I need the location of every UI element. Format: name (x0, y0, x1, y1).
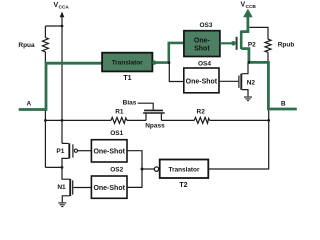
svg-text:OS1: OS1 (110, 130, 123, 137)
resistor Rpua (42, 26, 48, 63)
svg-text:N1: N1 (57, 184, 66, 191)
svg-text:N2: N2 (247, 79, 256, 86)
wire T2 output to B rail (208, 110, 268, 169)
svg-text:One-Shot: One-Shot (186, 79, 218, 86)
svg-text:Shot: Shot (194, 46, 210, 53)
translator T1 box (102, 53, 152, 72)
T2 input bubble (154, 167, 158, 171)
ground N1 (58, 203, 66, 207)
svg-text:Npass: Npass (145, 123, 165, 130)
svg-text:One-Shot: One-Shot (93, 185, 125, 192)
wire R2 to B rail (210, 119, 269, 121)
wire P1 gate to OS1 (78, 150, 92, 152)
svg-text:A: A (26, 101, 31, 108)
svg-text:Translator: Translator (169, 166, 200, 173)
wire N2 drain (242, 63, 248, 74)
svg-text:R1: R1 (115, 108, 124, 115)
wire mid rail left segment (45, 119, 111, 121)
wire Npass to R2 (161, 119, 194, 121)
wire VCCA rail down to P1 source (61, 26, 63, 143)
resistor R2 (194, 117, 209, 123)
wire branch down to OS4 input (169, 64, 184, 82)
power VCCA label (54, 2, 70, 11)
svg-text:T2: T2 (179, 182, 187, 189)
wire Bias to Npass gate (138, 103, 154, 110)
one-shot OS3 box (184, 31, 220, 57)
power VCCA arrow (60, 12, 65, 27)
resistor Rpub (250, 27, 272, 61)
svg-text:Rpub: Rpub (278, 41, 295, 48)
wire OS1 output (127, 151, 142, 169)
node P1/N1 drain junction (61, 166, 64, 169)
one-shot OS2 box (91, 176, 127, 198)
wire junction to T2 bubble (142, 168, 154, 170)
svg-text:OS2: OS2 (110, 167, 123, 174)
transistor N1 (62, 167, 73, 202)
node A green wire to T1 input (19, 63, 103, 109)
svg-text:Translator: Translator (112, 60, 143, 67)
wire P2 drain to Rpub and B rail (green) (248, 62, 297, 109)
svg-text:Rpua: Rpua (18, 42, 35, 49)
svg-text:CCB: CCB (246, 4, 257, 10)
wire R1 to Npass (127, 119, 146, 121)
power VCCB arrow (green) (243, 9, 253, 18)
transistor P2 (237, 17, 249, 62)
transistor P2 gate bubble (231, 41, 236, 46)
transistor N2 (239, 74, 248, 97)
wire OS3 output to P2 gate (green) (220, 42, 231, 44)
one-shot OS4 box (184, 68, 219, 93)
transistor Npass (143, 110, 165, 120)
ground N2 (244, 97, 252, 101)
label One-Shot OS3 (194, 38, 211, 53)
node mid-rail left junction (44, 119, 47, 122)
node OS1/OS2 output junction (141, 168, 144, 171)
node B rail junction (267, 119, 270, 122)
svg-text:One-: One- (194, 38, 211, 45)
svg-text:P1: P1 (56, 148, 64, 155)
power VCCB label (241, 1, 257, 10)
transistor P1 (62, 143, 78, 167)
svg-text:OS4: OS4 (198, 61, 211, 68)
svg-text:T1: T1 (123, 75, 131, 82)
translator T2 box (160, 160, 209, 179)
svg-text:OS3: OS3 (199, 22, 212, 29)
svg-text:Bias: Bias (123, 100, 137, 107)
svg-text:R2: R2 (197, 109, 206, 116)
wire VCCA to Rpua (45, 25, 62, 27)
one-shot OS1 box (91, 140, 127, 162)
wire drain node to A branch (45, 166, 62, 168)
wire N1 gate to OS2 (73, 187, 91, 189)
node T1 output dot (152, 61, 156, 65)
svg-text:P2: P2 (248, 41, 256, 48)
wire T1 output to OS3 (green) (152, 43, 184, 63)
wire OS2 output (127, 169, 142, 187)
node VCCA rail crossing junction (61, 119, 64, 122)
svg-text:B: B (281, 101, 286, 108)
svg-text:One-Shot: One-Shot (93, 148, 125, 155)
wire OS4 output to N2 gate (219, 80, 238, 82)
node VCCA junction (61, 25, 64, 28)
node T1 output branch junction (168, 61, 171, 64)
node P2/N2 drain junction (248, 61, 251, 64)
resistor R1 (111, 117, 127, 123)
svg-text:CCA: CCA (59, 5, 70, 11)
wire A node down to mid rail (44, 111, 46, 168)
